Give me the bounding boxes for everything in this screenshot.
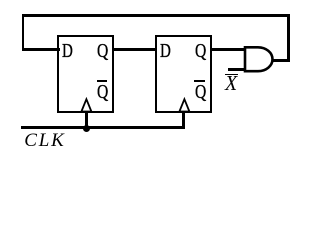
clock triangle (U1) (79, 97, 95, 113)
label Qbar (U1) (97, 82, 108, 102)
overline of Qbar (U1) (97, 80, 108, 82)
wire: left feedback vertical (22, 14, 25, 51)
wire: AND output (272, 59, 290, 62)
wire: FF2 Q to AND gate top input (210, 48, 245, 51)
label Xbar (225, 73, 237, 94)
label Qbar (U2) (195, 82, 206, 102)
overline of Qbar (U2) (194, 80, 205, 82)
flip-flop U2 box (155, 35, 212, 113)
label Q (U2) (195, 41, 206, 61)
label Q (U1) (97, 41, 108, 61)
label CLK (24, 131, 65, 150)
flip-flop U1 box (57, 35, 114, 113)
AND gate U3 (240, 42, 280, 78)
wire: CLK horizontal (21, 126, 185, 129)
clock triangle (U2) (177, 97, 193, 113)
label D (U1) (62, 41, 73, 61)
wire: right feedback vertical (287, 14, 290, 62)
wire: riser to FF1 clock (85, 112, 88, 127)
wire: top feedback horizontal (22, 14, 290, 17)
overline of Xbar (225, 74, 238, 76)
junction dot on CLK (83, 125, 90, 132)
label D (U2) (160, 41, 171, 61)
wire: D input of FF1 (22, 48, 60, 51)
wire: FF1 Q to FF2 D (112, 48, 156, 51)
wire: riser to FF2 clock (182, 112, 185, 129)
wire: AND gate bottom input stub (Xbar) (228, 68, 245, 71)
